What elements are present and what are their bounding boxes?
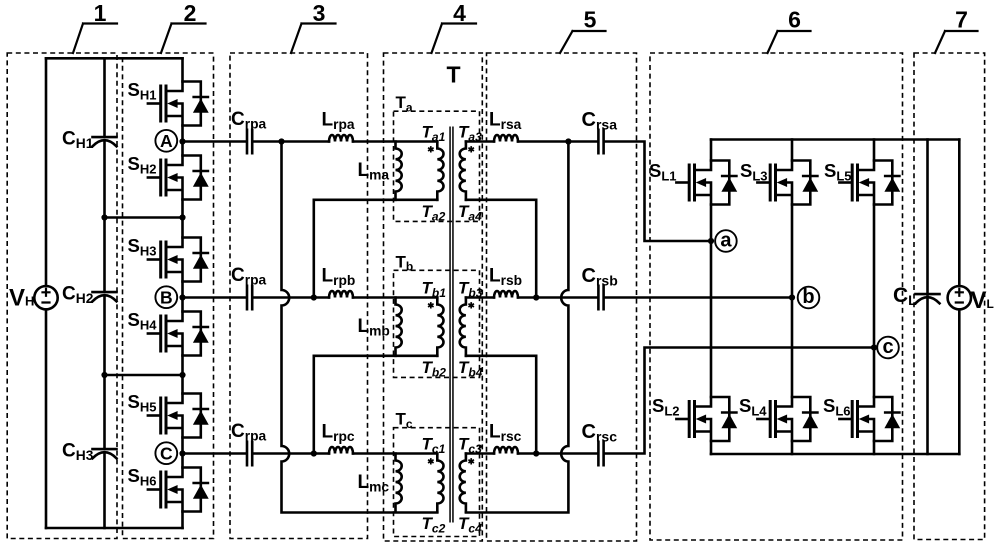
svg-text:b: b [802, 286, 814, 308]
capacitor C_rsc (series resonant secondary) [598, 442, 603, 466]
junction dot node b [789, 294, 795, 300]
wire: phase c output link C_rsc to node c [605, 348, 874, 454]
transistor S_L3 with body diode [757, 161, 818, 205]
transformer primary winding T_a1-T_a2 [437, 142, 443, 200]
node A circled label [155, 130, 177, 152]
section box 2 (primary switch leg) [123, 53, 214, 539]
transistor S_L6 with body diode [839, 397, 900, 441]
wire: phase b output link C_rsb to node b [605, 296, 792, 299]
wire: phase a secondary return to phase b secondary junction [466, 200, 536, 298]
transistor S_L1 with body diode [676, 161, 737, 205]
wire: phase b L_rp to primary winding [353, 296, 437, 299]
polarity star secondary b [468, 302, 474, 308]
wire: secondary leg a segments [710, 140, 713, 455]
section box 7 (output filter and load) [914, 53, 985, 540]
junction dot phase b primary [311, 294, 317, 300]
inductor L_rpc (series resonant) [329, 447, 353, 454]
wire: phase a secondary winding to L_rs [466, 140, 494, 143]
transformer primary winding T_b1-T_b2 [437, 298, 443, 356]
wire: phase b C_rp to L_rp [253, 296, 329, 299]
magnetizing inductor L_mb [396, 298, 402, 356]
wire: divider tap C_H1/C_H2 to leg [105, 216, 183, 219]
dashed box winding group T_b [394, 270, 480, 377]
wire: phase a C_rp to L_rp [253, 140, 329, 143]
transistor S_H1 with body diode [148, 82, 209, 126]
transistor S_L2 with body diode [676, 397, 737, 441]
transistor S_H3 with body diode [148, 238, 209, 282]
wire: runner from phase a junction down to phase c primary return (with crossover hops) [282, 142, 438, 513]
magnetizing inductor L_ma [396, 142, 402, 200]
transformer secondary winding T_b3-T_b4 [460, 298, 466, 356]
voltage source V_H [34, 286, 57, 309]
node C circled label [155, 442, 177, 464]
junction dot phase a secondary [565, 138, 571, 144]
wire: phase a L_rp to primary winding [353, 140, 437, 143]
junction dot node c [871, 344, 877, 350]
svg-text:a: a [720, 229, 732, 251]
section box 6 (secondary switch bridge) [650, 53, 903, 540]
junction dots on tap 1 [101, 214, 107, 220]
polarity star primary a [428, 146, 434, 152]
junction dot phase b secondary [533, 294, 539, 300]
svg-text:6: 6 [788, 7, 801, 33]
junction dot phase c primary [311, 450, 317, 456]
wire: phase b L_rs to C_rs [518, 296, 597, 299]
junction dot phase a primary [278, 138, 284, 144]
transformer core double line [449, 127, 451, 523]
wire: divider tap C_H2/C_H3 to leg [105, 374, 183, 377]
wire: phase a output link C_rsa to node a [605, 142, 711, 242]
transformer secondary winding T_a3-T_a4 [460, 142, 466, 200]
svg-text:2: 2 [184, 0, 197, 26]
svg-text:7: 7 [955, 7, 968, 33]
wire: bottom rail primary side [46, 527, 183, 530]
svg-text:T: T [447, 62, 461, 88]
inductor L_rpb (series resonant) [329, 291, 353, 298]
wire: primary leg segments [181, 58, 184, 528]
inductor L_rpa (series resonant) [329, 135, 353, 142]
inductor L_rsb (series resonant secondary) [494, 291, 518, 298]
node c circled label [877, 337, 899, 359]
junction dots on tap 2 [101, 372, 107, 378]
wire: V_L bus vertical [958, 140, 961, 455]
wire: runner from phase a secondary junction down to phase c secondary return (with crossover hops) [466, 142, 569, 513]
transistor S_L5 with body diode [839, 161, 900, 205]
node B circled label [155, 286, 177, 308]
svg-text:A: A [160, 131, 173, 151]
svg-text:3: 3 [313, 0, 326, 26]
capacitor C_L (output filter) [916, 294, 940, 303]
polarity star primary b [428, 302, 434, 308]
wire: secondary leg c segments [873, 140, 876, 455]
junction dot phase c secondary [533, 450, 539, 456]
capacitor C_H3 [93, 449, 117, 458]
inductor L_rsa (series resonant secondary) [494, 135, 518, 142]
section box 4 (transformer T) [384, 53, 483, 541]
wire: phase c L_rs to C_rs [518, 452, 597, 455]
section box 5 (secondary resonant network) [487, 53, 637, 541]
transistor S_L4 with body diode [757, 397, 818, 441]
junction dot node a [708, 238, 714, 244]
junction dot node A [179, 138, 185, 144]
capacitor C_rsb (series resonant secondary) [598, 286, 603, 310]
wire: phase b secondary return to phase c secondary junction [466, 356, 536, 454]
junction dot node C [179, 450, 185, 456]
wire: phase b from node to C_rp [183, 296, 246, 299]
wire: phase c L_rp to primary winding [353, 452, 437, 455]
wire: secondary top rail [711, 138, 959, 141]
wire: secondary bottom rail [711, 453, 959, 456]
transistor S_H2 with body diode [148, 156, 209, 200]
svg-text:c: c [882, 336, 893, 358]
capacitor C_rpa (series resonant) [247, 130, 252, 154]
wire: secondary leg b segments [791, 140, 794, 455]
svg-text:4: 4 [453, 0, 466, 26]
voltage source V_L [948, 286, 971, 309]
capacitor C_rsa (series resonant secondary) [598, 130, 603, 154]
section box 3 (primary resonant network) [230, 53, 368, 539]
dashed box winding group T_c [394, 428, 480, 537]
polarity star secondary a [468, 146, 474, 152]
svg-text:1: 1 [94, 0, 107, 26]
magnetizing inductor L_mc [396, 454, 402, 512]
node a circled label [715, 230, 737, 252]
capacitor C_H2 [93, 292, 117, 301]
transistor S_H4 with body diode [148, 312, 209, 356]
capacitor C_rpc (series resonant) [247, 442, 252, 466]
capacitor C_rpb (series resonant) [247, 286, 252, 310]
wire: top rail primary side [46, 57, 183, 60]
polarity star secondary c [468, 458, 474, 464]
wire: V_H bus vertical [45, 58, 48, 528]
wire: C_L bus vertical [926, 140, 929, 455]
transistor S_H5 with body diode [148, 394, 209, 438]
wire: C_H capacitor bus vertical [103, 58, 106, 528]
dashed box winding group T_a [394, 111, 480, 221]
wire: phase a from node to C_rp [183, 140, 246, 143]
transformer secondary winding T_c3-T_c4 [460, 454, 466, 512]
transistor S_H6 with body diode [148, 468, 209, 512]
transformer primary winding T_c1-T_c2 [437, 454, 443, 512]
inductor L_rsc (series resonant secondary) [494, 447, 518, 454]
wire: phase c C_rp to L_rp [253, 452, 329, 455]
wire: phase b secondary winding to L_rs [466, 296, 494, 299]
junction dot node B [179, 294, 185, 300]
svg-text:5: 5 [584, 7, 597, 33]
wire: phase c from node to C_rp [183, 452, 246, 455]
node b circled label [798, 287, 820, 309]
wire: phase a L_rs to C_rs [518, 140, 597, 143]
svg-text:B: B [160, 288, 173, 308]
wire: phase b primary return to phase c junction [314, 356, 438, 454]
capacitor C_H1 [93, 137, 117, 146]
wire: phase a primary return to phase b junction [314, 200, 438, 298]
polarity star primary c [428, 458, 434, 464]
section box 1 (input source and divider caps) [7, 53, 117, 539]
wire: phase c secondary winding to L_rs [466, 452, 494, 455]
svg-text:C: C [160, 444, 173, 464]
